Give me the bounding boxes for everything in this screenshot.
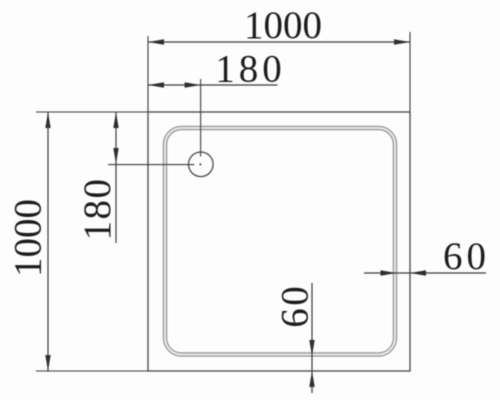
dimension 60 bottom: top arrow (points down at rim) (309, 340, 314, 356)
dimension 60 bottom: bottom arrow (points up at edge) (309, 371, 314, 387)
dimension 60 right: right arrow (points left at edge) (410, 270, 426, 275)
svg-text:60: 60 (443, 235, 490, 278)
dimension 180 left: bottom arrow (113, 148, 118, 164)
svg-text:180: 180 (76, 178, 119, 241)
dimension 1000 left: bottom arrow (45, 355, 50, 371)
tray outer square (148, 112, 410, 371)
svg-text:1000: 1000 (7, 199, 50, 277)
dimension 1000 top: right arrow (394, 39, 410, 44)
drain center mark (199, 163, 201, 165)
extension line from drain center up (200, 79, 202, 157)
dimension 1000 top: left arrow (148, 39, 164, 44)
dimension 60 right: line (364, 272, 486, 274)
dimension 1000 left: top arrow (45, 112, 50, 128)
extension line bottom-left (bottom edge extended left) (36, 370, 148, 372)
dimension 1000 left: line (47, 112, 49, 371)
svg-text:1000: 1000 (244, 4, 322, 47)
dimension 180 top: right arrow (185, 82, 201, 87)
dimension 180 left: top arrow (113, 112, 118, 128)
extension line above top-left corner (147, 36, 149, 112)
tray rim inner rounded line (167, 130, 394, 354)
extension line top-left (top edge extended left) (36, 111, 148, 113)
dimension 60 right: left arrow (points right at rim) (381, 270, 397, 275)
dimension 180 top: left arrow (148, 82, 164, 87)
dimension 1000 top: line (148, 41, 410, 43)
tray rim outer rounded line (164, 127, 397, 357)
dimension 180 top: line (148, 84, 278, 86)
dimension 60 bottom: line (311, 283, 313, 393)
drain hole circle (189, 152, 214, 177)
extension line above top-right corner (409, 32, 411, 112)
extension line from drain center left (108, 164, 194, 166)
svg-text:60: 60 (274, 284, 317, 328)
svg-text:180: 180 (215, 48, 286, 91)
dimension 180 left: line (115, 112, 117, 243)
